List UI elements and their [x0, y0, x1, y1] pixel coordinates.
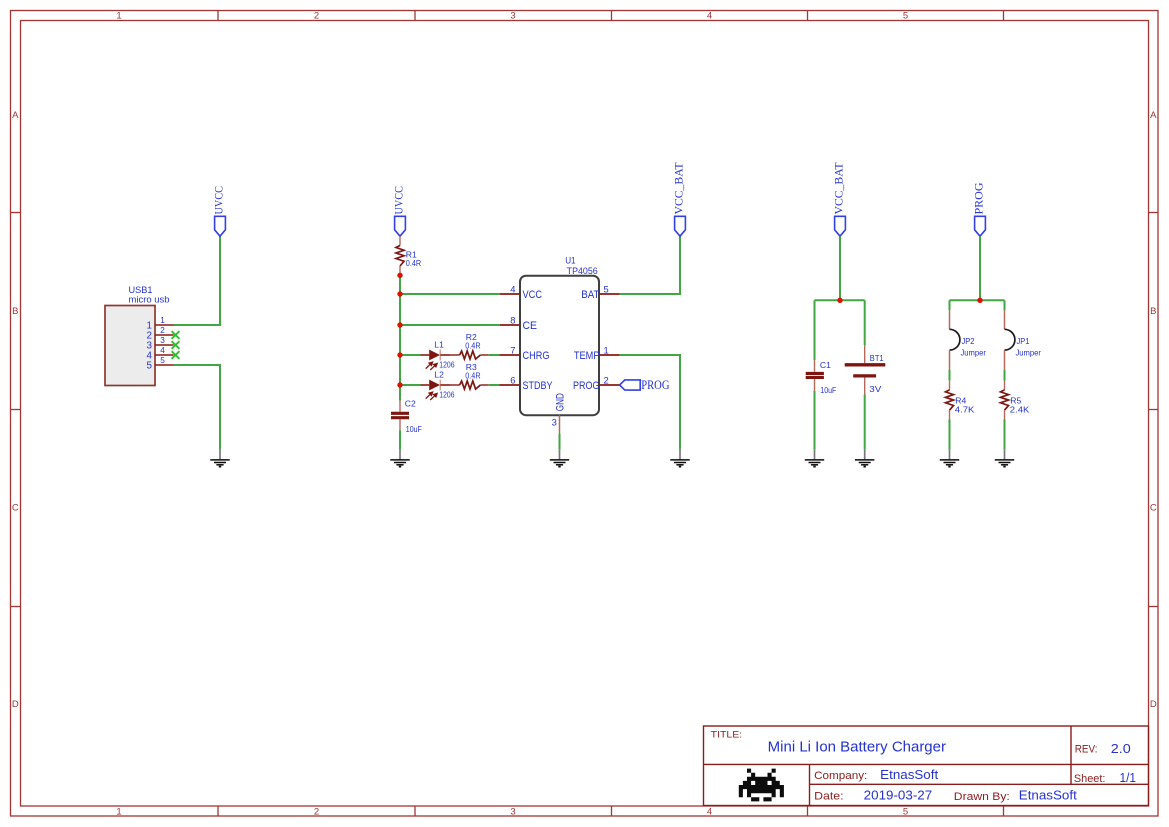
svg-text:5: 5	[903, 11, 908, 22]
svg-text:2: 2	[604, 374, 609, 385]
wire to JP1	[1004, 300, 1006, 310]
USB1 pin 1	[155, 324, 174, 326]
svg-text:0.4R: 0.4R	[465, 370, 480, 380]
svg-text:2.0: 2.0	[1111, 741, 1131, 756]
wire USB pin1 to UVCC	[174, 236, 221, 325]
ground (R4)	[940, 450, 959, 467]
junction dots UVCC rail	[397, 273, 402, 278]
wire VCC_BAT flag down	[839, 236, 841, 300]
wire to IC pin	[489, 384, 500, 386]
ground (BT1)	[855, 450, 874, 467]
svg-text:BAT: BAT	[581, 289, 600, 301]
svg-text:2: 2	[314, 11, 319, 22]
wire PROG flag down	[979, 236, 981, 300]
svg-text:TEMP: TEMP	[574, 350, 600, 362]
no-connect X	[172, 341, 180, 349]
wire TEMP to ground	[620, 355, 680, 450]
svg-text:0.4R: 0.4R	[465, 340, 480, 350]
wire C2 to ground	[399, 430, 401, 449]
svg-text:2019-03-27: 2019-03-27	[864, 789, 933, 803]
connector USB1 (micro usb)	[105, 306, 155, 386]
ground (C2)	[390, 450, 409, 467]
svg-text:micro usb: micro usb	[129, 295, 170, 305]
resistor R5 body	[1001, 390, 1009, 410]
svg-text:CHRG: CHRG	[523, 350, 550, 362]
power flag UVCC	[395, 216, 406, 236]
svg-text:5: 5	[160, 356, 165, 365]
svg-text:VCC_BAT: VCC_BAT	[832, 162, 846, 215]
svg-text:VCC_BAT: VCC_BAT	[672, 162, 686, 215]
junction dot PROG tee	[977, 298, 982, 303]
title block	[704, 726, 1149, 806]
svg-text:0.4R: 0.4R	[406, 258, 421, 268]
svg-text:1206: 1206	[439, 360, 454, 370]
power flag PROG	[975, 216, 986, 236]
net port PROG	[620, 380, 641, 390]
svg-text:3: 3	[160, 336, 165, 345]
power flag VCC_BAT	[835, 216, 846, 236]
svg-text:5: 5	[903, 806, 908, 817]
svg-text:4.7K: 4.7K	[955, 404, 975, 414]
wire UVCC rail	[399, 275, 401, 400]
resistor R1 body	[396, 246, 404, 267]
LED L1 1206	[421, 354, 430, 356]
wire JP2 to R4	[949, 370, 951, 381]
svg-text:10uF: 10uF	[406, 424, 422, 434]
power flag UVCC	[215, 216, 226, 236]
svg-text:TP4056: TP4056	[567, 266, 598, 276]
svg-text:REV:: REV:	[1075, 744, 1098, 756]
svg-text:Date:: Date:	[814, 791, 844, 803]
svg-text:5: 5	[147, 360, 153, 371]
wire rail to VCC pin	[400, 293, 500, 295]
svg-text:4: 4	[707, 806, 712, 817]
wire R4 to ground	[949, 420, 951, 450]
svg-text:Drawn By:: Drawn By:	[954, 791, 1010, 803]
svg-text:3: 3	[552, 417, 557, 428]
svg-text:1/1: 1/1	[1120, 771, 1137, 785]
wire C1/BT1 tee	[815, 299, 865, 301]
junction dot VCC_BAT tee	[837, 298, 842, 303]
resistor R2 0.4R	[450, 354, 460, 356]
U1 pin 1 TEMP	[599, 354, 620, 356]
svg-text:C2: C2	[405, 398, 416, 408]
U1 pin 7 CHRG	[500, 354, 520, 356]
svg-text:Jumper: Jumper	[961, 348, 987, 358]
svg-text:B: B	[12, 306, 18, 317]
resistor R2 body	[460, 351, 481, 359]
svg-text:C: C	[1150, 503, 1157, 514]
wire C1 to ground	[814, 391, 816, 450]
svg-text:1206: 1206	[439, 390, 454, 400]
wire to BT1	[864, 300, 866, 345]
svg-text:3: 3	[510, 806, 515, 817]
ground (USB shield)	[210, 450, 229, 467]
wire BAT to VCC_BAT flag	[620, 236, 680, 294]
resistor R5 2.4K	[1004, 381, 1006, 390]
svg-text:2: 2	[314, 806, 319, 817]
svg-text:C: C	[12, 503, 19, 514]
svg-text:U1: U1	[565, 256, 575, 266]
svg-text:UVCC: UVCC	[392, 186, 406, 215]
svg-text:VCC: VCC	[523, 289, 543, 301]
LED L2 1206	[421, 384, 430, 386]
U1 pin 3 GND	[559, 415, 561, 434]
svg-text:D: D	[12, 699, 19, 710]
resistor R1 0.4R	[399, 236, 401, 245]
svg-text:7: 7	[510, 344, 515, 355]
ground (R5)	[995, 450, 1014, 467]
svg-text:JP1: JP1	[1017, 336, 1030, 346]
USB1 pin 4	[155, 354, 174, 356]
wire rail to L2	[400, 384, 421, 386]
resistor R3 0.4R	[450, 384, 460, 386]
ground (TEMP)	[670, 450, 689, 467]
svg-text:2.4K: 2.4K	[1010, 404, 1030, 414]
svg-text:JP2: JP2	[962, 336, 975, 346]
USB1 pin 3	[155, 344, 174, 346]
svg-text:EtnasSoft: EtnasSoft	[1019, 789, 1078, 803]
svg-text:1: 1	[116, 11, 121, 22]
svg-text:3V: 3V	[869, 384, 881, 394]
svg-text:PROG: PROG	[573, 380, 600, 392]
wire rail to L1	[400, 354, 421, 356]
wire JP tee	[950, 299, 1005, 301]
wire R5 to ground	[1004, 420, 1006, 450]
U1 pin 5 BAT	[599, 293, 620, 295]
USB1 pin 5	[155, 364, 174, 366]
svg-text:STDBY: STDBY	[523, 380, 554, 392]
wire to C1	[814, 300, 816, 360]
svg-text:A: A	[12, 110, 19, 121]
svg-text:10uF: 10uF	[820, 385, 836, 395]
wire JP1 to R5	[1004, 370, 1006, 381]
svg-text:4: 4	[707, 11, 712, 22]
wire U1 GND to ground	[559, 434, 561, 450]
resistor R3 body	[460, 381, 481, 389]
wire BT1 to ground	[864, 395, 866, 450]
svg-text:4: 4	[160, 346, 165, 355]
U1 pin 4 VCC	[500, 293, 520, 295]
jumper JP2	[949, 310, 951, 329]
ground (C1)	[805, 450, 824, 467]
U1 pin 2 PROG	[599, 384, 620, 386]
svg-text:B: B	[1150, 306, 1156, 317]
svg-text:GND: GND	[554, 393, 566, 411]
svg-text:3: 3	[510, 11, 515, 22]
svg-text:CE: CE	[523, 320, 538, 332]
logo space invader	[739, 769, 784, 802]
svg-text:A: A	[1150, 110, 1157, 121]
svg-text:L1: L1	[434, 339, 444, 349]
capacitor C1 10uF	[814, 360, 816, 372]
svg-text:Mini Li Ion Battery Charger: Mini Li Ion Battery Charger	[768, 739, 946, 755]
svg-text:C1: C1	[820, 360, 831, 370]
IC U1 TP4056	[520, 276, 599, 416]
battery BT1 3V	[864, 345, 866, 363]
svg-text:1: 1	[160, 316, 165, 325]
USB1 pin 2	[155, 334, 174, 336]
svg-text:Jumper: Jumper	[1016, 348, 1042, 358]
svg-text:UVCC: UVCC	[212, 186, 226, 215]
svg-text:1: 1	[116, 806, 121, 817]
wire USB pin5 to ground	[174, 365, 221, 450]
svg-text:Company:: Company:	[814, 770, 867, 782]
svg-text:PROG: PROG	[972, 182, 986, 214]
wire to JP2	[949, 300, 951, 310]
U1 pin 8 CE	[500, 324, 520, 326]
wire to IC pin	[489, 354, 500, 356]
svg-text:PROG: PROG	[641, 378, 669, 392]
svg-text:Sheet:: Sheet:	[1074, 773, 1106, 785]
svg-text:D: D	[1150, 699, 1157, 710]
no-connect X	[172, 351, 180, 359]
svg-text:4: 4	[510, 283, 515, 294]
no-connect X	[172, 331, 180, 339]
U1 pin 6 STDBY	[500, 384, 520, 386]
jumper JP1	[1004, 310, 1006, 329]
ground (U1 GND)	[550, 450, 569, 467]
wire rail to CE pin	[400, 324, 500, 326]
svg-text:1: 1	[604, 344, 609, 355]
svg-text:BT1: BT1	[870, 353, 884, 363]
svg-text:6: 6	[510, 374, 515, 385]
resistor R4 4.7K	[949, 381, 951, 390]
svg-text:TITLE:: TITLE:	[711, 729, 742, 739]
svg-text:5: 5	[604, 283, 609, 294]
svg-text:L2: L2	[434, 369, 444, 379]
power flag VCC_BAT	[675, 216, 686, 236]
svg-text:8: 8	[510, 314, 515, 325]
resistor R4 body	[946, 390, 954, 410]
svg-text:EtnasSoft: EtnasSoft	[880, 768, 939, 782]
capacitor C2 10uF	[399, 401, 401, 412]
svg-text:2: 2	[160, 326, 165, 335]
